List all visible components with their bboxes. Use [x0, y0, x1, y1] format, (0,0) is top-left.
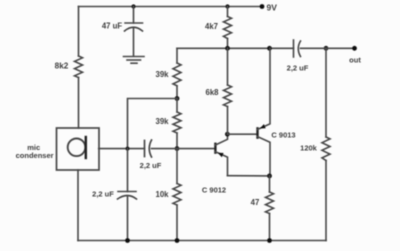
svg-text:8k2: 8k2	[55, 61, 69, 70]
wire output rail	[177, 47, 294, 49]
svg-text:47 uF: 47 uF	[102, 22, 123, 31]
resistor R 39k lower	[173, 112, 181, 133]
node out rail / 4k7-6k8	[225, 46, 230, 51]
transistor Q2 C9013 base bar	[256, 128, 258, 137]
svg-text:39k: 39k	[155, 70, 169, 79]
wire 47 upper stub	[269, 176, 271, 192]
wire 4k7 from rail	[227, 7, 229, 17]
svg-text:out: out	[349, 56, 361, 65]
resistor R 10k	[173, 184, 181, 206]
resistor R 47	[266, 192, 274, 214]
transistor Q1 C9012 base bar	[214, 144, 216, 153]
wire 47 to ground rail	[269, 214, 271, 241]
wire 8k2 to mic box	[78, 78, 80, 129]
wire C9012 emitter to 47 node	[228, 175, 270, 177]
wire mic box to ground rail	[77, 170, 79, 241]
transistor Q2 upper lead	[258, 48, 271, 129]
wire mic signal out	[99, 148, 145, 150]
wire 6k8 upper stub	[227, 48, 229, 85]
node out rail / 120k	[324, 46, 329, 51]
svg-text:C 9012: C 9012	[202, 186, 226, 195]
wire divider node to C9012 base	[177, 148, 215, 150]
node divider / signal junction	[175, 146, 180, 151]
node top rail / 4k7 junction	[225, 4, 229, 8]
svg-text:47: 47	[251, 198, 260, 207]
node divider mid junction	[175, 96, 180, 101]
wire 120k top stub	[325, 48, 327, 137]
resistor R 39k upper	[173, 63, 181, 86]
wire cap to out terminal	[301, 47, 355, 49]
wire divider top corner	[176, 48, 178, 63]
wire 120k bottom riser	[325, 161, 327, 241]
resistor R 8k2	[75, 56, 83, 78]
svg-text:10k: 10k	[155, 190, 169, 199]
node rail / 47	[267, 238, 272, 243]
wire feedback down to 2.2uF bypass	[127, 149, 129, 192]
resistor R 6k8	[224, 85, 232, 107]
ground symbol	[124, 56, 145, 58]
node rail / 10k	[175, 238, 180, 243]
node out terminal	[352, 46, 357, 51]
svg-text:2,2 uF: 2,2 uF	[92, 190, 114, 199]
wire 47uF to ground	[133, 29, 135, 57]
transistor Q1 emitter arrow	[218, 153, 224, 157]
capacitor C 2.2uF bypass curved plate	[118, 196, 137, 200]
svg-text:120k: 120k	[300, 143, 318, 152]
capacitor C 2.2uF coupling plate	[144, 141, 146, 157]
wire base node down to 10k	[176, 149, 178, 184]
wire 39k lower to base node	[176, 133, 178, 149]
wire base link to C9013	[228, 133, 258, 135]
capacitor C 47uF plate	[125, 22, 143, 24]
resistor R 4k7	[224, 17, 232, 39]
mic condenser box	[57, 128, 100, 170]
wire feedback left	[128, 99, 178, 149]
capacitor C 2.2uF bypass plate	[118, 191, 136, 193]
svg-text:6k8: 6k8	[205, 88, 219, 97]
wire 39k to mid node	[176, 86, 178, 99]
capacitor C 47uF curved plate	[125, 27, 143, 31]
wire 47uF branch from rail	[133, 7, 135, 24]
wire 4k7 to out node	[227, 39, 229, 49]
node out rail / C9013 collector	[267, 46, 272, 51]
svg-text:2,2 uF: 2,2 uF	[140, 161, 162, 170]
svg-text:9V: 9V	[267, 3, 278, 13]
wire cap to divider node	[152, 148, 178, 150]
transistor Q2 lower lead	[258, 137, 271, 176]
svg-text:condenser: condenser	[16, 151, 54, 160]
svg-text:39k: 39k	[155, 117, 169, 126]
svg-text:4k7: 4k7	[205, 22, 218, 31]
svg-text:C 9013: C 9013	[271, 131, 295, 140]
node 6k8 / bases junction	[225, 132, 230, 137]
wire top rail 9V	[79, 6, 263, 8]
mic capsule circle	[68, 139, 86, 157]
capacitor C 2.2uF output plate	[293, 40, 295, 57]
transistor Q1 collector lead	[215, 134, 227, 145]
node rail / bypass cap	[125, 238, 130, 243]
svg-text:2,2 uF: 2,2 uF	[287, 64, 309, 73]
node signal / feedback junction	[126, 147, 130, 151]
wire 6k8 lower stub	[227, 107, 229, 135]
capacitor C 2.2uF output curved plate	[298, 41, 300, 57]
resistor R 120k	[322, 137, 330, 161]
wire bypass cap to ground rail	[127, 197, 129, 241]
transistor Q1 emitter lead	[215, 152, 227, 176]
wire 10k to ground rail	[176, 205, 178, 241]
mic capsule bar	[85, 137, 87, 158]
node emitters / 47 junction	[267, 174, 272, 179]
node 9V terminal	[260, 4, 265, 9]
node top rail / 47uF junction	[131, 4, 135, 8]
capacitor C 2.2uF coupling curved plate	[149, 140, 151, 157]
wire 8k2 drop from rail	[78, 7, 80, 57]
wire ground rail	[78, 240, 326, 242]
wire divider mid to 39k lower	[176, 99, 178, 113]
transistor Q2 upper arrow	[260, 124, 266, 128]
